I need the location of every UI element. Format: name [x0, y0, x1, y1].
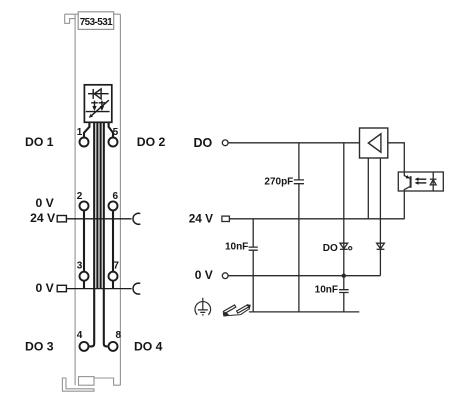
wire: pin 2 to pin 3 [83, 211, 85, 271]
junction dot 0V/10nF [342, 274, 346, 278]
module bottom-right step [94, 378, 120, 385]
wire: bundle line to 0 V rail (right) [100, 122, 102, 288]
diode D1 cathode bar [340, 248, 348, 250]
DIN rail symbol base edge [224, 309, 249, 316]
module top edge [65, 13, 121, 15]
icon diode cathode bar [92, 89, 94, 99]
wire: bundle line to 0 V rail (left) [96, 122, 98, 288]
optocoupler LED triangle [430, 180, 436, 185]
diode D2 triangle [377, 243, 385, 249]
wire: pin 6 to pin 7 [112, 211, 114, 271]
icon output arrow 2 head [100, 106, 104, 111]
icon diode triangle [94, 89, 101, 99]
svg-text:10nF: 10nF [225, 242, 248, 253]
pin 8 [109, 342, 118, 351]
svg-text:0 V: 0 V [195, 268, 213, 282]
optocoupler LED cathode bar [430, 178, 437, 180]
icon output arrow 2 bar [99, 102, 106, 104]
icon diagonal arrow head [89, 114, 93, 118]
pin 5 [109, 138, 118, 147]
wire DO terminal to driver box [228, 142, 359, 144]
svg-text:753-531: 753-531 [80, 17, 113, 28]
wire: box stub to pin 1 [84, 122, 89, 137]
capacitor 10nF (lower) plates [339, 290, 349, 293]
wire optocoupler emitter to 24V rail [403, 191, 405, 219]
icon output arrow 1 bar [91, 102, 98, 104]
icon diagonal arrow shaft [92, 100, 109, 115]
pin 7 [109, 272, 118, 281]
24 V jumper terminal square [57, 216, 66, 222]
pin 2 [80, 201, 89, 210]
optocoupler transistor arrow [406, 175, 410, 178]
icon diode wire [88, 93, 109, 95]
module top-left claw [65, 14, 75, 23]
24 V jumper socket arc [133, 213, 140, 224]
wire: pin 7 to 0 V rail [112, 282, 114, 289]
0 V wire [228, 275, 380, 277]
svg-text:DO 1: DO 1 [25, 135, 54, 149]
wire: box stub to pin 5 [109, 122, 113, 137]
electronics icon box [84, 85, 111, 123]
svg-text:5: 5 [113, 127, 119, 138]
capacitor 270pF plates [294, 180, 304, 184]
0 V jumper terminal square [57, 285, 66, 291]
svg-text:270pF: 270pF [264, 176, 293, 187]
wire: bundle line to pin 4 (DO 3) [89, 122, 94, 346]
svg-text:DO 4: DO 4 [134, 339, 163, 353]
svg-text:1: 1 [77, 127, 83, 138]
wire: pin 3 to 0 V rail [83, 282, 85, 289]
DIN rail symbol right end face [247, 305, 250, 309]
icon output arrow 1 stem [94, 101, 96, 108]
pin 1 [80, 138, 89, 147]
DIN rail symbol flange right [237, 305, 249, 313]
svg-text:DO 2: DO 2 [137, 135, 166, 149]
driver box [360, 128, 388, 158]
DIN rail symbol left end face [223, 313, 228, 316]
capacitor 10nF (upper) plates [249, 247, 258, 250]
24 V jumper wire [66, 218, 131, 220]
ordering label box [78, 12, 114, 30]
icon output arrow 2 stem [101, 101, 103, 108]
svg-text:DO: DO [323, 243, 338, 254]
svg-text:0 V: 0 V [36, 196, 55, 210]
pin 4 [80, 342, 89, 351]
wire 270pF branch lower [298, 184, 300, 312]
bottom shield rail [249, 311, 359, 313]
24 V rail wire [229, 218, 404, 220]
0 V jumper socket arc [133, 283, 140, 294]
optocoupler LED wire [432, 172, 434, 191]
optocoupler transistor base bar [410, 176, 412, 188]
functional earth stem [202, 298, 204, 310]
0 V jumper wire [66, 288, 131, 290]
optocoupler light arrow 2 [418, 182, 426, 184]
svg-text:7: 7 [113, 260, 119, 271]
diode D1 subscript circle [349, 247, 352, 250]
wire driver through diode to 0V [379, 158, 381, 276]
svg-text:6: 6 [112, 191, 118, 202]
svg-text:3: 3 [77, 260, 83, 271]
wire driver to 24V rail [367, 158, 369, 219]
0 V terminal circle [222, 273, 228, 279]
module body left edge [74, 14, 76, 385]
optocoupler transistor collector [404, 172, 410, 178]
functional earth bars [198, 310, 208, 315]
driver triangle [368, 134, 381, 152]
svg-text:10nF: 10nF [315, 284, 338, 295]
DIN rail symbol flange left [223, 305, 235, 314]
icon output symbol baseline [86, 111, 110, 113]
module body right edge [119, 14, 121, 385]
icon output arrow 1 head [92, 106, 96, 111]
svg-text:24 V: 24 V [189, 211, 213, 225]
module bottom-left hook [62, 378, 94, 391]
svg-text:24 V: 24 V [30, 211, 56, 225]
svg-text:4: 4 [77, 330, 83, 341]
svg-text:0 V: 0 V [36, 281, 55, 295]
optocoupler light arrow 1 [418, 178, 426, 180]
svg-text:2: 2 [77, 191, 83, 202]
wire 270pF branch upper [298, 143, 300, 180]
pin 3 [80, 272, 89, 281]
svg-text:DO 3: DO 3 [25, 339, 54, 353]
module bottom center tab [79, 377, 95, 386]
optocoupler transistor emitter [404, 186, 410, 191]
diode D1 (DO protection) triangle [340, 243, 348, 249]
wire driver box to optocoupler [388, 143, 405, 172]
24 V terminal square [222, 216, 230, 221]
wire: bundle line to pin 8 (DO 4) [104, 122, 108, 346]
wire 10nF branch (from 24V rail) [252, 219, 254, 312]
functional earth arc [195, 302, 211, 315]
optocoupler box [398, 172, 443, 191]
wire DO-diode branch lower [343, 293, 345, 312]
wire DO-diode branch upper [343, 143, 345, 290]
optocoupler light arrow 2 head [415, 181, 419, 185]
DO input terminal circle [222, 140, 228, 146]
optocoupler light arrow 1 head [415, 177, 419, 181]
diode D2 cathode bar [377, 248, 385, 250]
svg-text:8: 8 [115, 330, 121, 341]
pin 6 [109, 201, 118, 210]
svg-text:DO: DO [193, 136, 212, 150]
